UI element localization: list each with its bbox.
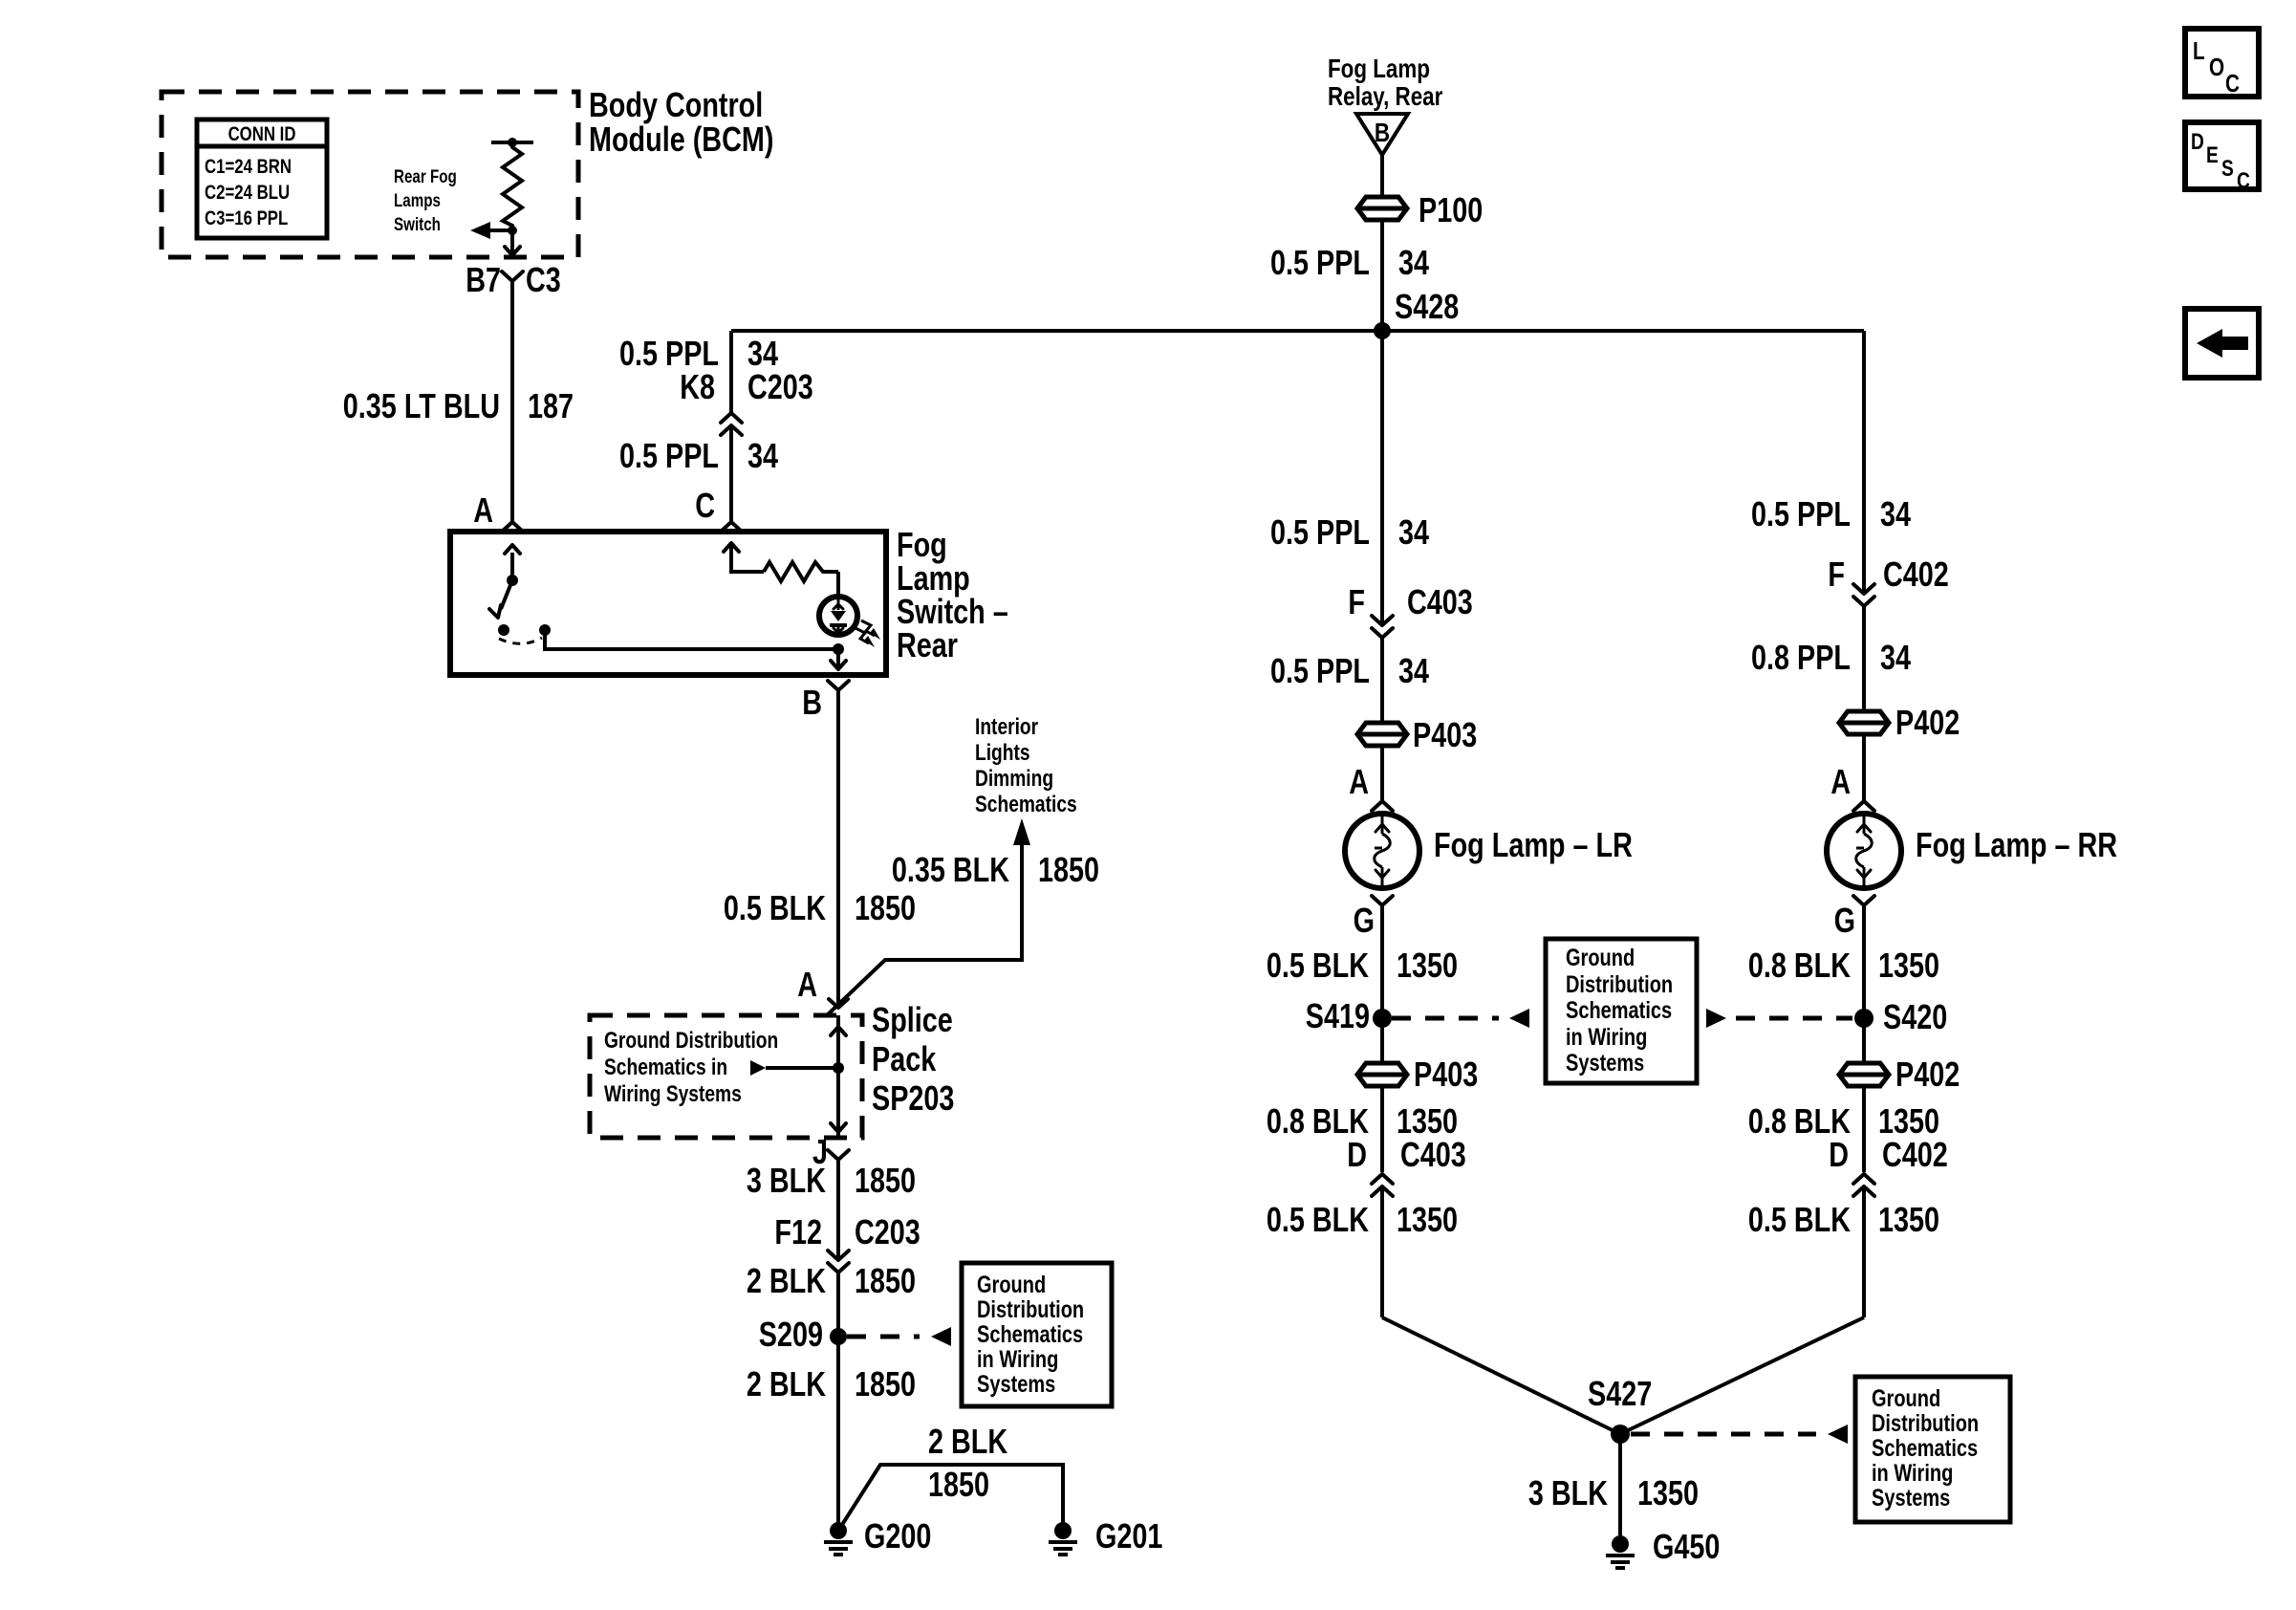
svg-text:A: A xyxy=(1349,762,1369,801)
svg-text:1850: 1850 xyxy=(855,1161,916,1200)
svg-text:Distribution: Distribution xyxy=(977,1296,1084,1323)
svg-text:Systems: Systems xyxy=(1872,1485,1950,1512)
svg-text:Wiring Systems: Wiring Systems xyxy=(604,1080,742,1107)
svg-text:34: 34 xyxy=(1880,494,1911,533)
wire 0.8 BLK 1350 (LR) xyxy=(1380,1085,1384,1172)
branch wire 2 BLK 1850 to G201 xyxy=(838,1465,1063,1531)
wire 3 BLK 1850 xyxy=(836,1165,840,1260)
node (switch signal junction) xyxy=(508,226,517,235)
svg-text:G201: G201 xyxy=(1095,1516,1162,1556)
svg-text:C: C xyxy=(2237,167,2250,194)
svg-text:G200: G200 xyxy=(864,1516,931,1556)
svg-text:P403: P403 xyxy=(1413,715,1477,754)
svg-text:Schematics: Schematics xyxy=(1566,997,1672,1024)
svg-text:F: F xyxy=(1348,582,1365,621)
wire 0.8 PPL 34 (C402 to P402) xyxy=(1862,606,1866,711)
svg-text:CONN ID: CONN ID xyxy=(228,123,296,145)
svg-text:Module (BCM): Module (BCM) xyxy=(589,120,773,159)
svg-text:B: B xyxy=(1375,119,1390,148)
svg-text:0.35 LT BLU: 0.35 LT BLU xyxy=(343,386,500,425)
svg-text:A: A xyxy=(1830,762,1851,801)
svg-text:F: F xyxy=(1828,555,1845,594)
svg-text:0.5 PPL: 0.5 PPL xyxy=(1270,243,1370,282)
wire S419 to P403 xyxy=(1380,1018,1384,1064)
svg-text:C: C xyxy=(695,486,715,525)
svg-text:C: C xyxy=(2225,70,2240,98)
back arrow icon box xyxy=(2185,309,2259,378)
svg-text:1350: 1350 xyxy=(1637,1473,1699,1512)
svg-text:Ground: Ground xyxy=(1566,945,1635,971)
svg-text:B7: B7 xyxy=(466,260,501,299)
svg-text:Interior: Interior xyxy=(975,713,1039,740)
LED indicator (switch illumination) xyxy=(819,597,857,635)
svg-text:Rear: Rear xyxy=(897,625,958,664)
svg-text:Schematics: Schematics xyxy=(977,1321,1083,1348)
svg-text:Schematics in: Schematics in xyxy=(604,1054,727,1080)
svg-text:D: D xyxy=(2191,128,2204,155)
svg-text:SP203: SP203 xyxy=(872,1078,954,1118)
svg-text:0.5 PPL: 0.5 PPL xyxy=(1751,494,1851,533)
wire 0.5 PPL 34 (S428 to C403) xyxy=(1380,331,1384,625)
svg-text:0.5 BLK: 0.5 BLK xyxy=(1267,1200,1370,1239)
connector B7/C3 fork xyxy=(502,272,523,281)
wire 0.35 LT BLU 187 xyxy=(510,287,514,522)
wire (BCM internal to pin B7) xyxy=(510,230,514,255)
fog lamp switch box xyxy=(450,532,886,675)
svg-text:1350: 1350 xyxy=(1878,1200,1939,1239)
fog lamp RR xyxy=(1827,814,1901,888)
svg-text:Fog Lamp: Fog Lamp xyxy=(1328,54,1430,84)
svg-text:34: 34 xyxy=(1880,638,1911,677)
wire S420 to P402 xyxy=(1862,1018,1866,1064)
svg-text:C203: C203 xyxy=(855,1212,921,1251)
grommet P403 (lower) xyxy=(1357,1063,1407,1086)
svg-text:0.8 PPL: 0.8 PPL xyxy=(1751,638,1851,677)
pin B connector xyxy=(828,681,849,690)
svg-text:2 BLK: 2 BLK xyxy=(747,1364,827,1403)
svg-text:Relay, Rear: Relay, Rear xyxy=(1328,82,1442,112)
svg-text:C402: C402 xyxy=(1882,1135,1948,1174)
wire 0.5 PPL 34 (C203 to switch C) xyxy=(729,425,733,521)
svg-text:3 BLK: 3 BLK xyxy=(747,1161,827,1200)
svg-text:1850: 1850 xyxy=(855,888,916,927)
wire 0.5 PPL 34 (P100 to S428) xyxy=(1380,219,1384,331)
svg-text:P402: P402 xyxy=(1895,703,1960,742)
wire 0.8 BLK 1350 (RR lower) xyxy=(1862,1085,1866,1172)
svg-text:1850: 1850 xyxy=(855,1364,916,1403)
svg-text:C2=24 BLU: C2=24 BLU xyxy=(205,182,290,204)
svg-text:Systems: Systems xyxy=(1566,1050,1644,1077)
ground distribution box (S427) xyxy=(1855,1377,2010,1522)
svg-text:0.5 PPL: 0.5 PPL xyxy=(1270,512,1370,552)
svg-text:D: D xyxy=(1347,1135,1367,1174)
svg-text:Schematics: Schematics xyxy=(1872,1435,1978,1462)
svg-text:C3=16 PPL: C3=16 PPL xyxy=(205,207,289,229)
wire 0.5 BLK 1350 (C402 to S427) xyxy=(1862,1186,1866,1317)
svg-text:Ground Distribution: Ground Distribution xyxy=(604,1027,778,1054)
fog lamp LR xyxy=(1345,814,1419,888)
svg-text:Lamps: Lamps xyxy=(394,189,441,210)
splice pack SP203 dashed box xyxy=(590,1015,862,1138)
svg-text:P403: P403 xyxy=(1414,1055,1478,1094)
svg-text:Body Control: Body Control xyxy=(589,85,763,124)
ground distribution box (S419/S420) xyxy=(1546,939,1697,1083)
wire 2 BLK 1850 (lower) xyxy=(836,1337,840,1531)
wire 0.5 PPL 34 (bus to C203) xyxy=(729,331,733,413)
splice S209 xyxy=(830,1328,847,1345)
pin A connector (LR) xyxy=(1372,801,1393,811)
svg-text:G: G xyxy=(1354,901,1375,940)
ground G200 xyxy=(830,1522,847,1539)
CONN ID table xyxy=(197,120,327,238)
switch contacts xyxy=(498,624,509,636)
splice S419 xyxy=(1373,1009,1392,1028)
svg-text:E: E xyxy=(2206,141,2219,168)
svg-text:C402: C402 xyxy=(1883,555,1949,594)
svg-text:0.5 BLK: 0.5 BLK xyxy=(1267,946,1370,985)
svg-text:34: 34 xyxy=(1398,243,1429,282)
svg-text:2 BLK: 2 BLK xyxy=(928,1422,1008,1461)
wire 0.5 PPL 34 (C403 to P403) xyxy=(1380,638,1384,723)
LED light rays xyxy=(856,628,869,643)
svg-text:in Wiring: in Wiring xyxy=(1566,1024,1647,1051)
grommet P100 xyxy=(1357,197,1407,220)
svg-text:0.5 BLK: 0.5 BLK xyxy=(724,888,827,927)
splice S428 xyxy=(1374,322,1391,339)
svg-text:A: A xyxy=(473,490,493,530)
S419 reference dashed arrow xyxy=(1392,1016,1499,1021)
svg-text:Splice: Splice xyxy=(872,1000,953,1039)
svg-text:3 BLK: 3 BLK xyxy=(1528,1473,1609,1512)
wire 0.5 BLK 1850 (switch B to SP203) xyxy=(836,696,840,1008)
LOC icon box xyxy=(2185,29,2259,97)
wire 0.5 BLK 1350 (LR to S419) xyxy=(1380,905,1384,1018)
svg-text:C403: C403 xyxy=(1407,582,1473,621)
wire 2 BLK 1850 (upper) xyxy=(836,1273,840,1337)
splice S420 xyxy=(1854,1009,1874,1028)
wire P402 to fog lamp RR xyxy=(1862,733,1866,801)
node LED to pin B xyxy=(833,643,844,655)
svg-text:S419: S419 xyxy=(1306,996,1370,1035)
S420 reference dashed arrow xyxy=(1706,1009,1726,1028)
svg-text:L: L xyxy=(2193,37,2205,65)
svg-text:0.8 BLK: 0.8 BLK xyxy=(1748,946,1852,985)
svg-text:34: 34 xyxy=(1398,651,1429,690)
svg-text:in Wiring: in Wiring xyxy=(977,1346,1058,1373)
svg-text:1850: 1850 xyxy=(1038,850,1099,889)
svg-text:Distribution: Distribution xyxy=(1872,1410,1979,1437)
pin G connector (LR) xyxy=(1372,896,1393,905)
fog lamp relay terminal B (triangle) xyxy=(1356,114,1408,155)
wire S428 distribution bus xyxy=(731,329,1864,333)
svg-text:K8: K8 xyxy=(680,367,715,406)
dimmer resistor (pin C side) xyxy=(724,543,739,552)
svg-text:S428: S428 xyxy=(1395,287,1459,326)
svg-text:C203: C203 xyxy=(747,367,813,406)
svg-text:S420: S420 xyxy=(1883,997,1947,1036)
wire 0.8 BLK 1350 (RR to S420) xyxy=(1862,905,1866,1018)
grommet P402 (lower) xyxy=(1839,1063,1889,1086)
wire P403 to fog lamp LR xyxy=(1380,745,1384,801)
svg-text:O: O xyxy=(2209,54,2224,81)
svg-text:P402: P402 xyxy=(1895,1055,1960,1094)
branch wire 0.35 BLK 1850 to interior lights dimming xyxy=(826,845,1022,1016)
svg-text:S209: S209 xyxy=(759,1315,823,1354)
Body Control Module (BCM) dashed box xyxy=(162,92,578,257)
svg-text:C1=24 BRN: C1=24 BRN xyxy=(205,156,292,178)
arrow to Rear Fog Lamps Switch xyxy=(490,228,512,232)
svg-text:Ground: Ground xyxy=(1872,1385,1940,1412)
svg-text:2 BLK: 2 BLK xyxy=(747,1261,827,1300)
ground G450 xyxy=(1612,1535,1629,1553)
svg-text:Distribution: Distribution xyxy=(1566,971,1673,998)
svg-text:D: D xyxy=(1829,1135,1849,1174)
svg-text:Dimming: Dimming xyxy=(975,765,1053,792)
svg-text:P100: P100 xyxy=(1419,190,1483,229)
svg-text:0.5 PPL: 0.5 PPL xyxy=(619,436,719,475)
svg-text:C403: C403 xyxy=(1400,1135,1466,1174)
DESC icon box xyxy=(2185,122,2259,189)
svg-text:1350: 1350 xyxy=(1397,946,1458,985)
ground distribution box (S209) xyxy=(962,1263,1112,1406)
connector J fork xyxy=(828,1150,849,1160)
pin A connector xyxy=(502,522,523,532)
svg-text:S427: S427 xyxy=(1588,1374,1652,1413)
grommet P402 (upper) xyxy=(1839,711,1889,734)
svg-text:1850: 1850 xyxy=(855,1261,916,1300)
svg-text:1350: 1350 xyxy=(1397,1200,1458,1239)
pin A connector (RR) xyxy=(1853,801,1874,811)
wire 0.5 PPL 34 (S428 to C402) xyxy=(1862,331,1866,594)
svg-text:B: B xyxy=(802,683,822,722)
svg-text:34: 34 xyxy=(1398,512,1429,552)
svg-text:G: G xyxy=(1834,901,1855,940)
S427 reference dashed arrow xyxy=(1631,1432,1816,1437)
svg-text:1850: 1850 xyxy=(928,1465,989,1504)
svg-text:Fog Lamp – RR: Fog Lamp – RR xyxy=(1916,825,2117,864)
svg-text:187: 187 xyxy=(528,386,574,425)
wire contact to LED junction xyxy=(545,630,838,649)
svg-text:0.5 PPL: 0.5 PPL xyxy=(1270,651,1370,690)
wire LED junction to pin B xyxy=(836,649,840,669)
svg-text:34: 34 xyxy=(747,436,778,475)
switch arm (pin A side) xyxy=(510,553,514,578)
svg-text:Schematics: Schematics xyxy=(975,791,1077,817)
wire 0.5 BLK 1350 (C403 to S427) xyxy=(1380,1186,1384,1317)
svg-text:Ground: Ground xyxy=(977,1272,1046,1298)
S209 reference dashed arrow xyxy=(847,1335,920,1339)
grommet P403 (upper) xyxy=(1357,723,1407,746)
svg-text:G450: G450 xyxy=(1653,1527,1720,1566)
svg-text:0.5 BLK: 0.5 BLK xyxy=(1748,1200,1852,1239)
svg-text:A: A xyxy=(797,965,817,1004)
SP203 internal wire and splice node xyxy=(836,1015,840,1138)
svg-text:C3: C3 xyxy=(526,260,561,299)
svg-text:1350: 1350 xyxy=(1878,946,1939,985)
svg-text:0.35 BLK: 0.35 BLK xyxy=(892,850,1010,889)
svg-text:Switch: Switch xyxy=(394,213,441,234)
svg-text:Rear Fog: Rear Fog xyxy=(394,165,457,186)
pin C connector xyxy=(721,522,742,532)
wire relay to P100 xyxy=(1380,155,1384,198)
svg-text:S: S xyxy=(2221,155,2234,182)
svg-text:in Wiring: in Wiring xyxy=(1872,1460,1953,1487)
svg-text:Fog Lamp – LR: Fog Lamp – LR xyxy=(1434,825,1633,864)
svg-text:Pack: Pack xyxy=(872,1039,937,1078)
svg-text:Lights: Lights xyxy=(975,739,1030,766)
svg-text:Systems: Systems xyxy=(977,1371,1055,1398)
svg-text:F12: F12 xyxy=(774,1212,822,1251)
wire 3 BLK 1350 xyxy=(1618,1434,1622,1535)
SP203 reference arrow xyxy=(750,1060,766,1076)
pin G connector (RR) xyxy=(1853,896,1874,905)
ground G201 xyxy=(1054,1522,1072,1539)
resistor (rear fog lamps switch sense, BCM internal) xyxy=(491,141,533,144)
